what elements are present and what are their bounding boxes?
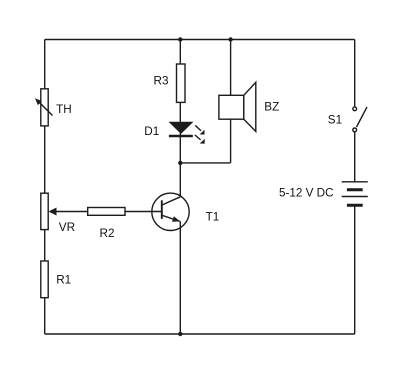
- svg-text:T1: T1: [206, 210, 220, 223]
- svg-text:R2: R2: [100, 227, 115, 240]
- svg-text:R1: R1: [56, 273, 71, 286]
- svg-text:TH: TH: [56, 103, 72, 116]
- svg-text:R3: R3: [154, 74, 169, 87]
- svg-text:VR: VR: [59, 221, 75, 234]
- svg-text:S1: S1: [328, 114, 342, 127]
- svg-text:5-12 V DC: 5-12 V DC: [279, 187, 334, 200]
- svg-text:BZ: BZ: [264, 101, 279, 114]
- svg-text:D1: D1: [144, 125, 159, 138]
